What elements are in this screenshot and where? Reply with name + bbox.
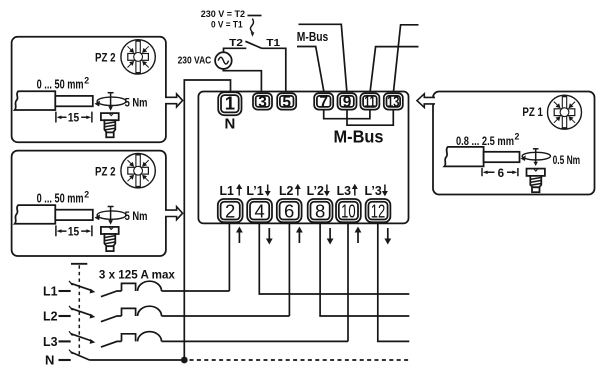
svg-text:15: 15 xyxy=(68,112,80,125)
svg-text:3: 3 xyxy=(258,94,267,111)
svg-text:0.8 ... 2.5 mm: 0.8 ... 2.5 mm xyxy=(456,134,514,148)
svg-text:11: 11 xyxy=(364,94,375,111)
svg-text:L3: L3 xyxy=(43,334,58,349)
svg-text:2: 2 xyxy=(515,132,520,142)
svg-text:M-Bus: M-Bus xyxy=(334,126,384,146)
svg-text:L1: L1 xyxy=(220,184,234,198)
svg-text:10: 10 xyxy=(341,200,356,221)
svg-text:L2: L2 xyxy=(43,309,58,324)
svg-text:1: 1 xyxy=(225,92,235,113)
svg-text:N: N xyxy=(45,353,54,368)
svg-text:4: 4 xyxy=(254,200,264,221)
svg-text:7: 7 xyxy=(319,94,328,111)
svg-text:PZ 2: PZ 2 xyxy=(95,51,116,65)
svg-text:0 V = T1: 0 V = T1 xyxy=(211,19,243,29)
svg-text:2: 2 xyxy=(84,76,89,86)
svg-text:L’2: L’2 xyxy=(307,184,324,198)
svg-text:6: 6 xyxy=(498,167,505,180)
svg-text:L2: L2 xyxy=(279,184,293,198)
svg-text:13: 13 xyxy=(387,94,400,111)
svg-text:N: N xyxy=(224,116,235,133)
svg-text:L3: L3 xyxy=(337,184,351,198)
svg-text:3 x 125 A max: 3 x 125 A max xyxy=(99,268,175,282)
svg-text:PZ 1: PZ 1 xyxy=(522,105,543,119)
svg-text:5 Nm: 5 Nm xyxy=(125,95,148,109)
svg-text:12: 12 xyxy=(371,200,386,221)
svg-text:8: 8 xyxy=(315,200,325,221)
svg-text:9: 9 xyxy=(343,94,352,111)
svg-text:L’1: L’1 xyxy=(246,184,263,198)
svg-text:6: 6 xyxy=(284,200,294,221)
svg-text:0 ... 50 mm: 0 ... 50 mm xyxy=(37,78,84,92)
svg-text:0.5 Nm: 0.5 Nm xyxy=(553,153,581,167)
svg-text:2: 2 xyxy=(225,200,235,221)
svg-text:M-Bus: M-Bus xyxy=(297,30,329,44)
svg-text:L’3: L’3 xyxy=(365,184,382,198)
svg-text:230 VAC: 230 VAC xyxy=(178,56,212,67)
svg-text:L1: L1 xyxy=(43,284,58,299)
svg-text:5: 5 xyxy=(282,94,291,111)
svg-text:T2: T2 xyxy=(229,37,243,49)
svg-text:T1: T1 xyxy=(266,37,280,49)
svg-text:230 V = T2: 230 V = T2 xyxy=(201,9,245,19)
